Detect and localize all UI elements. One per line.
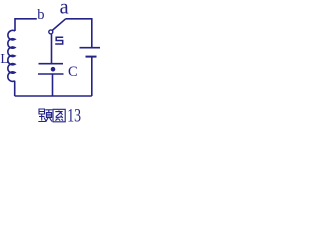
label s (55, 37, 63, 44)
inductor L (8, 30, 15, 81)
svg-text:L: L (0, 51, 8, 66)
wire pivot to capacitor (51, 34, 53, 63)
battery short plate (86, 56, 97, 58)
wire left-bottom (14, 81, 16, 96)
battery long plate (80, 47, 101, 49)
svg-text:a: a (60, 0, 70, 19)
caption 图 (53, 109, 65, 122)
capacitor C bottom plate (38, 73, 64, 75)
wire bottom (15, 95, 92, 97)
wire top-left to terminal b (15, 19, 37, 31)
wire capacitor to bottom (52, 74, 54, 96)
switch s pivot (49, 30, 53, 34)
switch s blade (52, 19, 66, 31)
svg-text:b: b (37, 7, 44, 23)
capacitor C top plate (39, 63, 64, 65)
junction dot (51, 67, 56, 72)
svg-text:C: C (68, 64, 78, 80)
wire top-right from node a (66, 19, 92, 47)
caption 题 (38, 109, 52, 122)
svg-text:13: 13 (67, 106, 81, 127)
wire right-bottom (battery to bottom) (91, 57, 93, 96)
